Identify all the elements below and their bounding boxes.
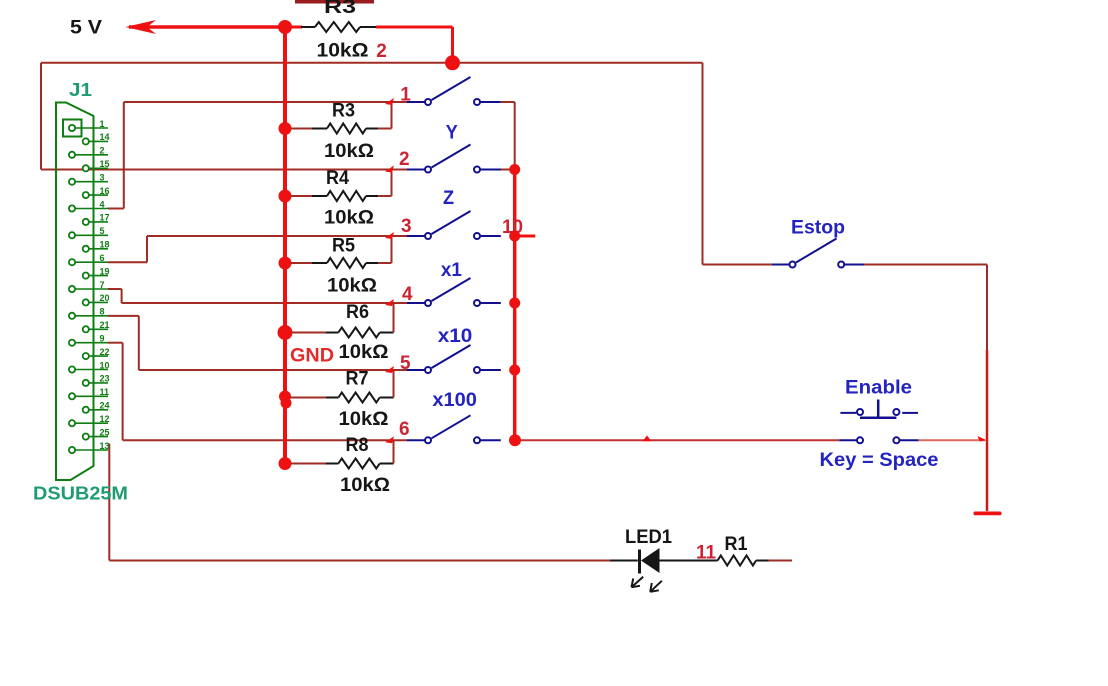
node 5V arrow line [129, 25, 285, 29]
resistor R3 [285, 128, 312, 130]
pin 19 of J1 [86, 275, 108, 277]
pin 23 of J1 [86, 382, 108, 384]
switch 1 (SPST) [407, 101, 425, 103]
svg-text:R6: R6 [346, 302, 369, 323]
pin 4 of J1 [72, 208, 108, 210]
svg-text:x100: x100 [432, 390, 477, 411]
svg-text:10: 10 [100, 360, 110, 370]
pin 9 of J1 [72, 342, 108, 344]
wire net2 to switch Z left [41, 169, 407, 171]
svg-text:J1: J1 [69, 80, 92, 100]
junction arrow net 5 [385, 366, 394, 373]
svg-text:10kΩ: 10kΩ [339, 409, 389, 430]
junction dot right bus sw3 [509, 231, 520, 242]
pin 18 of J1 [86, 248, 108, 250]
junction dot right bus sw2 [509, 164, 520, 175]
pin 11 of J1 [72, 395, 108, 397]
junction dot right bus sw5 [509, 365, 520, 376]
pin 8 of J1 [72, 315, 108, 317]
svg-text:9: 9 [100, 334, 105, 344]
resistor R5 [285, 262, 312, 264]
svg-text:11: 11 [696, 543, 716, 564]
svg-text:R1: R1 [725, 534, 748, 555]
pin 15 of J1 [86, 167, 108, 169]
wire switch1 right to right bus [501, 101, 515, 103]
svg-text:4: 4 [100, 199, 105, 209]
junction dot enable wire [509, 434, 521, 446]
svg-text:x1: x1 [441, 260, 462, 281]
svg-text:7: 7 [100, 280, 105, 290]
junction dot bus/R3 [279, 122, 292, 135]
switch Z (SPST) [407, 235, 425, 237]
svg-text:10kΩ: 10kΩ [324, 208, 374, 229]
wire pin9 to switch x100 [108, 342, 123, 344]
switch x10 (SPST) [407, 369, 425, 371]
switch x100 (SPST) [407, 439, 425, 441]
wire net2 horizontal top [41, 62, 703, 64]
junction arrow at ground bus [978, 436, 987, 441]
resistor R7 [285, 397, 326, 399]
junction arrow net 2 [385, 166, 394, 173]
pin 5 of J1 [72, 234, 108, 236]
wire net2 left vertical [40, 63, 42, 170]
wire pin8 to switch x10 [108, 315, 139, 317]
svg-text:Key = Space: Key = Space [820, 450, 939, 471]
svg-text:5: 5 [400, 353, 411, 374]
wire pin4 to switch 1 [108, 208, 124, 210]
svg-text:20: 20 [100, 293, 110, 303]
pin 2 of J1 [72, 154, 108, 156]
svg-text:x10: x10 [438, 326, 473, 347]
wire switch2 right to junction [499, 169, 514, 171]
pin 20 of J1 [86, 301, 108, 303]
resistor R1 [718, 556, 757, 566]
resistor R4 [285, 195, 312, 197]
wire Enable right to ground bus [919, 439, 986, 441]
junction arrow net 6 [385, 436, 394, 443]
wire pin6 to switch Z2 [108, 261, 147, 263]
svg-text:10kΩ: 10kΩ [340, 475, 390, 496]
right bus vertical [513, 170, 517, 441]
svg-text:11: 11 [100, 387, 110, 397]
svg-text:25: 25 [100, 427, 110, 437]
pin 6 of J1 [72, 261, 108, 263]
pin 22 of J1 [86, 355, 108, 357]
ground [974, 512, 1002, 516]
svg-text:Z: Z [443, 188, 454, 209]
svg-text:19: 19 [100, 266, 110, 276]
svg-text:13: 13 [100, 441, 110, 451]
svg-text:3: 3 [100, 173, 105, 183]
wire switch x100 to Enable [515, 439, 839, 441]
svg-text:Enable: Enable [845, 378, 912, 399]
pin 21 of J1 [86, 328, 108, 330]
svg-text:1: 1 [100, 119, 105, 129]
svg-text:LED1: LED1 [625, 527, 672, 548]
junction dot bus/R4 [279, 190, 292, 203]
svg-text:23: 23 [100, 374, 110, 384]
switch Y (SPST) [407, 169, 425, 171]
wire R3 top right to node 2 [376, 26, 453, 29]
pushbutton Enable (Key = Space) [840, 412, 856, 414]
pin 24 of J1 [86, 409, 108, 411]
svg-text:2: 2 [399, 149, 410, 170]
junction dot bus/R5 [279, 257, 292, 270]
svg-text:18: 18 [100, 240, 110, 250]
pin 7 of J1 [72, 288, 108, 290]
svg-text:4: 4 [402, 284, 413, 305]
wire to ground [986, 350, 989, 511]
svg-text:10kΩ: 10kΩ [317, 41, 369, 62]
svg-text:Estop: Estop [791, 218, 845, 239]
svg-text:Y: Y [446, 122, 458, 143]
junction arrow net 3 [385, 232, 394, 239]
junction arrow net 4 [385, 299, 394, 306]
pin 14 of J1 [86, 140, 108, 142]
pin 16 of J1 [86, 194, 108, 196]
svg-text:2: 2 [376, 41, 387, 62]
wire net10 stub [515, 235, 536, 238]
pin 17 of J1 [86, 221, 108, 223]
svg-text:10kΩ: 10kΩ [339, 342, 389, 363]
svg-text:10kΩ: 10kΩ [324, 141, 374, 162]
vertical 5V bus [283, 27, 287, 464]
svg-text:14: 14 [100, 132, 110, 142]
svg-text:5: 5 [100, 226, 105, 236]
connector J1 DSUB25M body [56, 103, 94, 481]
svg-text:10kΩ: 10kΩ [327, 276, 377, 297]
junction dot node 2 [445, 55, 460, 70]
svg-text:R3: R3 [324, 0, 356, 18]
svg-text:R4: R4 [326, 168, 349, 189]
resistor R6 [285, 332, 326, 334]
wire pin13 to LED1 [108, 444, 110, 561]
svg-text:R7: R7 [346, 369, 369, 390]
partial component top bar [295, 0, 374, 4]
pin 3 of J1 [72, 181, 108, 183]
svg-text:8: 8 [100, 307, 105, 317]
svg-text:3: 3 [401, 216, 412, 237]
svg-text:17: 17 [100, 213, 110, 223]
svg-text:1: 1 [400, 84, 411, 105]
svg-text:DSUB25M: DSUB25M [33, 484, 128, 504]
wire net2 down to Estop [702, 63, 704, 265]
svg-text:15: 15 [100, 159, 110, 169]
junction arrow enable wire [643, 436, 652, 442]
svg-text:24: 24 [100, 401, 110, 411]
pin 1 of J1 [72, 127, 108, 129]
svg-text:GND: GND [290, 346, 334, 367]
junction dot bus/R6 [278, 325, 293, 340]
junction dot bus/R8 [279, 457, 292, 470]
pin 13 of J1 [72, 449, 108, 451]
junction dot 5V/R3 [278, 20, 292, 34]
LED1 emission arrows [632, 577, 644, 588]
resistor R8 [285, 463, 326, 465]
junction dot bus/R7 [279, 391, 291, 403]
svg-text:16: 16 [100, 186, 110, 196]
pin 12 of J1 [72, 422, 108, 424]
svg-text:5 V: 5 V [70, 18, 102, 39]
switch x1 (SPST) [407, 302, 425, 304]
svg-text:22: 22 [100, 347, 110, 357]
wire Estop right [864, 264, 987, 266]
svg-text:6: 6 [100, 253, 105, 263]
svg-text:R8: R8 [346, 435, 369, 456]
svg-text:21: 21 [100, 320, 110, 330]
switch Estop [772, 264, 789, 266]
svg-text:R3: R3 [332, 101, 355, 122]
svg-text:2: 2 [100, 146, 105, 156]
LED LED1 [610, 560, 638, 562]
svg-text:6: 6 [399, 419, 410, 440]
wire pin7 to switch x1 [108, 288, 122, 290]
resistor R3 (top pull-up) [285, 26, 302, 29]
svg-text:R5: R5 [332, 236, 355, 257]
junction arrow net 1 [385, 98, 394, 105]
junction dot right bus sw4 [509, 298, 520, 309]
pin 25 of J1 [86, 436, 108, 438]
pin 10 of J1 [72, 369, 108, 371]
svg-text:12: 12 [100, 414, 110, 424]
